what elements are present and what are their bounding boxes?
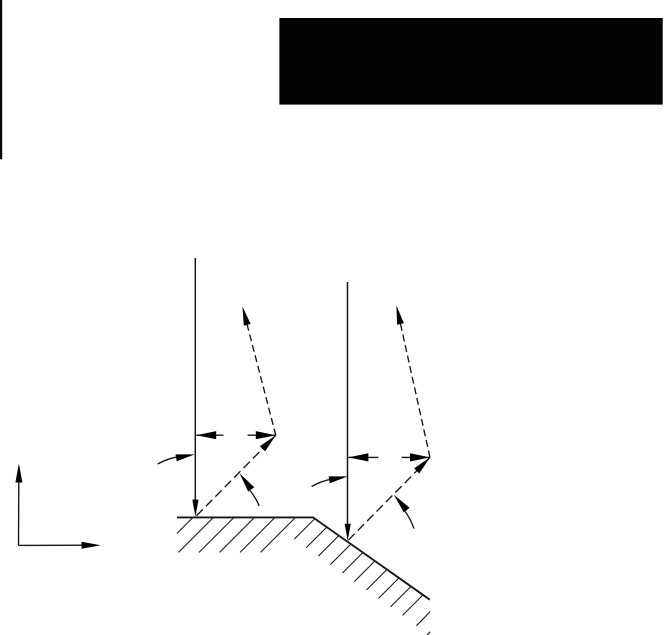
angle arc 1 arrowhead bbox=[176, 454, 195, 461]
coordinate axes vertical arrowhead bbox=[15, 464, 22, 483]
angle arc 3 tail bbox=[312, 479, 331, 486]
dimension arrow 2 left bbox=[348, 456, 378, 458]
coordinate axes horizontal arm bbox=[19, 544, 85, 546]
incident ray 1 arrowhead bbox=[192, 500, 198, 517]
coordinate axes vertical arm bbox=[18, 480, 20, 545]
left page border line bbox=[0, 0, 2, 159]
dimension arrow 1 right bbox=[248, 434, 276, 436]
dimension arrow 1 left bbox=[196, 434, 223, 436]
scattered ray B2 dashed bbox=[397, 310, 430, 457]
incident ray 1 vertical line bbox=[194, 258, 196, 503]
angle arc 4 tail bbox=[405, 512, 414, 529]
incident ray 2 arrowhead bbox=[345, 524, 351, 541]
coordinate axes horizontal arrowhead bbox=[82, 542, 101, 549]
angle arc 3 arrowhead bbox=[329, 476, 348, 483]
reflected ray A2 dashed bbox=[348, 457, 430, 540]
dimension arrow 2 right bbox=[402, 456, 430, 458]
reflected ray A2 arrowhead bbox=[414, 457, 430, 473]
angle arc 2 tail bbox=[250, 491, 259, 506]
scattered ray B2 arrowhead bbox=[396, 305, 404, 324]
angle arc 1 tail bbox=[158, 457, 178, 464]
terrain hatching bbox=[177, 517, 430, 635]
angle arc 4 arrowhead bbox=[394, 495, 410, 513]
reflected ray A1 arrowhead bbox=[260, 435, 276, 451]
reflected ray A1 dashed bbox=[197, 435, 276, 516]
angle arc 2 arrowhead bbox=[240, 473, 255, 491]
scattered ray B1 arrowhead bbox=[242, 306, 250, 325]
terrain surface polyline bbox=[177, 517, 430, 599]
incident ray 2 vertical line bbox=[347, 282, 349, 527]
scattered ray B1 dashed bbox=[244, 311, 276, 435]
black redaction bar bbox=[279, 18, 662, 105]
